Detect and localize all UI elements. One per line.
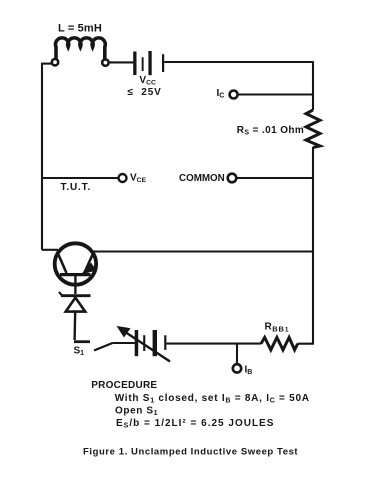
svg-text:COMMON: COMMON — [179, 173, 225, 184]
wire: IB stub — [236, 344, 238, 365]
diode cathode bar — [61, 294, 91, 297]
diode cathode tick — [59, 292, 63, 296]
terminal circle COMMON — [228, 174, 237, 183]
resistor RS — [306, 110, 320, 148]
transistor emitter lead — [85, 253, 94, 273]
wire: TUT VCE lead — [42, 177, 119, 179]
inductor terminal circle left — [52, 59, 58, 65]
svg-text:≤ 25V: ≤ 25V — [128, 87, 162, 98]
wire: right rail upper segment — [312, 61, 314, 110]
svg-text:PROCEDURE: PROCEDURE — [91, 380, 157, 391]
resistor RBB1 — [261, 337, 298, 350]
wire: left rail to transistor collector — [42, 249, 58, 251]
diode D1 — [66, 298, 86, 312]
transistor emitter arrow — [81, 263, 97, 275]
switch S1 blade — [94, 343, 113, 351]
svg-text:T.U.T.: T.U.T. — [61, 182, 92, 193]
svg-text:ES/b = 1/2LI² = 6.25 JOULES: ES/b = 1/2LI² = 6.25 JOULES — [116, 418, 274, 430]
svg-text:VCE: VCE — [130, 173, 147, 185]
wire: blade to battery — [113, 342, 135, 344]
svg-text:VCC: VCC — [139, 75, 156, 87]
variable battery arrow shaft — [123, 331, 170, 362]
wire: battery VCC to top-right corner — [164, 61, 313, 63]
svg-text:IC: IC — [217, 88, 225, 100]
svg-text:L = 5mH: L = 5mH — [58, 22, 102, 34]
inductor L1 coil — [55, 38, 105, 59]
wire: left vertical rail — [41, 63, 43, 250]
wire: right rail mid segment — [312, 147, 314, 344]
terminal circle IC — [230, 91, 238, 99]
battery VBB plates — [135, 330, 167, 356]
terminal circle VCE — [119, 174, 127, 182]
terminal circle IB — [233, 364, 241, 372]
battery VCC plates — [133, 51, 164, 75]
wire: COMMON to right rail — [237, 177, 313, 179]
svg-text:IB: IB — [245, 364, 253, 376]
svg-text:With S1 closed, set IB = 8A, I: With S1 closed, set IB = 8A, IC = 50A — [115, 393, 310, 405]
transistor base bar — [60, 273, 91, 276]
wire: base lead down — [74, 276, 76, 294]
wire: battery to RBB1 — [166, 343, 261, 345]
wire: diode to switch — [73, 312, 76, 340]
svg-text:Open S1: Open S1 — [115, 405, 158, 417]
svg-text:RS = .01 Ohm: RS = .01 Ohm — [237, 125, 304, 137]
transistor T.U.T. circle — [55, 243, 96, 284]
wire: left stub from inductor to left rail — [42, 63, 52, 65]
wire: RBB1 to right rail — [298, 343, 314, 345]
transistor collector lead — [58, 253, 67, 274]
inductor terminal circle right — [102, 59, 108, 65]
svg-text:Figure 1. Unclamped Inductive: Figure 1. Unclamped Inductive Sweep Test — [83, 447, 298, 458]
variable battery arrow head — [117, 326, 131, 338]
switch S1 contact — [74, 340, 90, 343]
wire: inductor to battery VCC — [109, 61, 134, 63]
wire: IC to right rail — [238, 93, 313, 95]
wire: transistor to right rail — [93, 250, 313, 252]
svg-text:S1: S1 — [74, 346, 85, 358]
svg-text:RBB1: RBB1 — [265, 322, 290, 334]
